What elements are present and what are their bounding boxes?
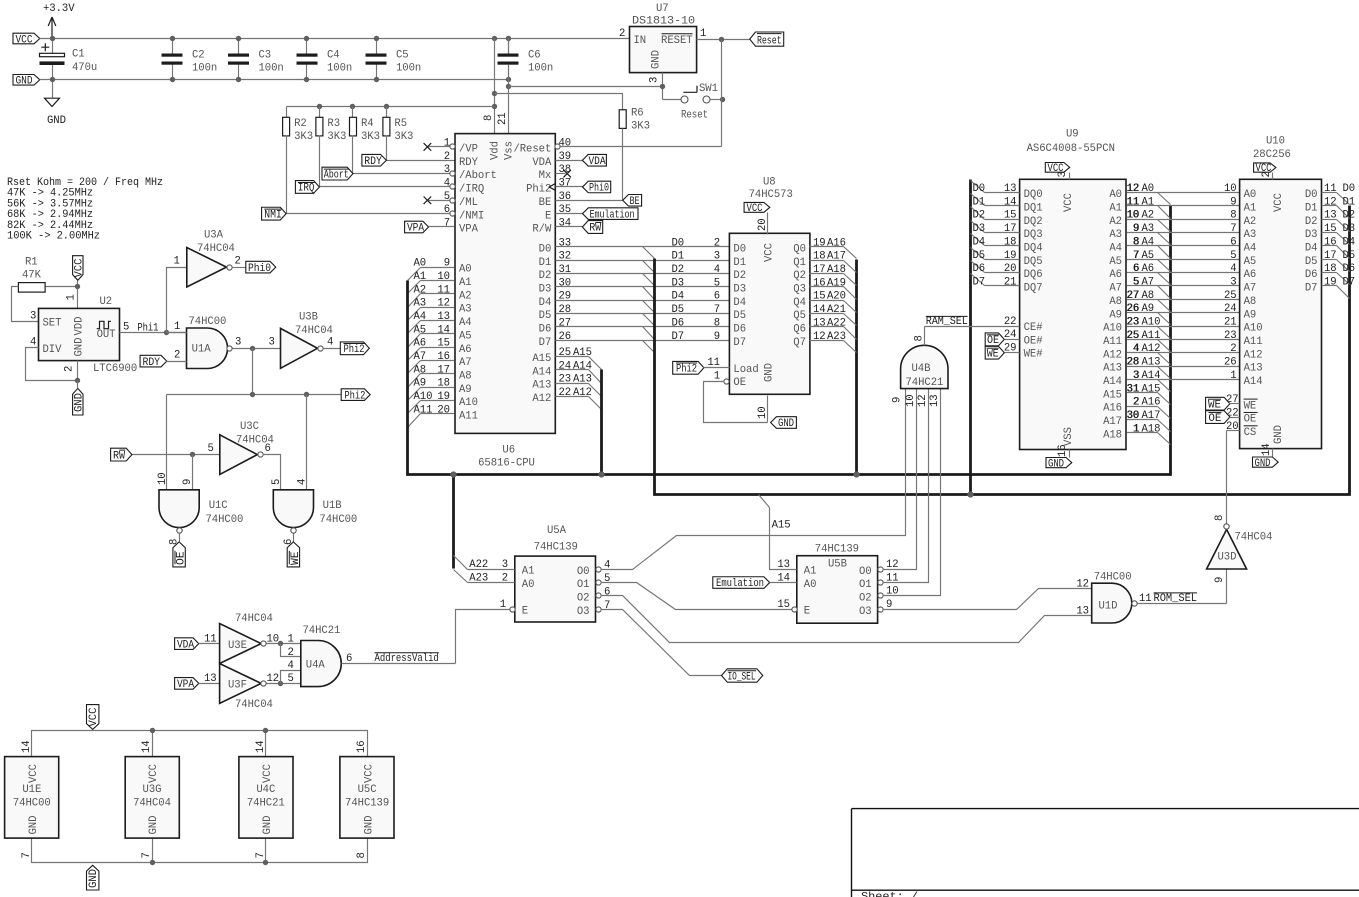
svg-text:1: 1 — [714, 371, 720, 383]
svg-text:74HC04: 74HC04 — [235, 613, 273, 625]
svg-text:GND: GND — [74, 393, 86, 412]
svg-text:6: 6 — [444, 204, 450, 216]
svg-text:Q1: Q1 — [793, 257, 806, 269]
global label Emulation (pin 35) — [556, 208, 639, 221]
svg-text:2: 2 — [444, 151, 450, 163]
svg-text:GND: GND — [88, 869, 100, 888]
svg-text:VCC: VCC — [88, 708, 100, 727]
svg-text:VPA: VPA — [459, 224, 479, 236]
svg-text:12: 12 — [267, 673, 280, 685]
wire VCC top rail — [40, 38, 630, 40]
svg-text:A16: A16 — [1103, 403, 1122, 415]
svg-text:A1: A1 — [804, 565, 817, 577]
svg-text:100n: 100n — [259, 63, 284, 75]
svg-text:A11: A11 — [1244, 336, 1263, 348]
svg-text:U4A: U4A — [306, 660, 326, 672]
svg-text:O0: O0 — [577, 566, 590, 578]
svg-text:20: 20 — [1226, 421, 1239, 433]
svg-text:74HC00: 74HC00 — [13, 798, 51, 810]
svg-text:D0: D0 — [539, 243, 552, 255]
svg-text:/VP: /VP — [459, 144, 478, 156]
svg-text:C6: C6 — [528, 50, 541, 62]
svg-text:22: 22 — [559, 387, 572, 399]
svg-text:6: 6 — [265, 443, 271, 455]
svg-text:D6: D6 — [973, 263, 986, 275]
svg-text:14: 14 — [1004, 196, 1017, 208]
resistor R6 3K3 — [495, 94, 650, 201]
svg-text:18: 18 — [1324, 263, 1337, 275]
svg-text:A4: A4 — [1244, 243, 1257, 255]
svg-text:Sheet: /: Sheet: / — [861, 892, 918, 897]
svg-text:A0: A0 — [804, 579, 817, 591]
svg-text:A2: A2 — [1244, 216, 1257, 228]
svg-text:74HC573: 74HC573 — [749, 189, 793, 201]
svg-text:74HC04: 74HC04 — [133, 798, 171, 810]
svg-text:3: 3 — [444, 164, 450, 176]
svg-text:RDY: RDY — [364, 156, 382, 168]
svg-text:6: 6 — [1230, 236, 1236, 248]
svg-text:RAM_SEL: RAM_SEL — [926, 316, 968, 328]
global label WE (U10) — [1206, 397, 1240, 411]
svg-text:A12: A12 — [573, 387, 592, 399]
svg-text:Phi2: Phi2 — [526, 184, 551, 196]
svg-text:OE: OE — [733, 377, 746, 389]
svg-text:GND: GND — [74, 338, 86, 357]
svg-text:/NMI: /NMI — [459, 210, 484, 222]
svg-text:U1E: U1E — [22, 784, 41, 796]
svg-text:A0: A0 — [1109, 189, 1122, 201]
IC U6 65816-CPU — [437, 112, 571, 469]
svg-text:17: 17 — [437, 364, 450, 376]
svg-text:A4: A4 — [414, 311, 427, 323]
svg-text:10: 10 — [905, 394, 917, 407]
gate U4A 74HC21 — [301, 625, 341, 687]
wire VPA to pin 7 — [429, 226, 455, 228]
svg-text:3K3: 3K3 — [294, 131, 313, 143]
svg-text:IN: IN — [634, 35, 647, 47]
global label RW (pin 34) — [556, 221, 603, 235]
svg-text:U10: U10 — [1266, 136, 1285, 148]
svg-text:A8: A8 — [414, 364, 427, 376]
svg-text:A22: A22 — [469, 559, 488, 571]
svg-text:E: E — [522, 605, 528, 617]
svg-text:A15: A15 — [1142, 383, 1161, 395]
svg-text:D2: D2 — [733, 270, 746, 282]
wire ROM_SEL / net label ROM_SEL — [1138, 593, 1227, 605]
resistor R3 3K3 — [316, 107, 346, 187]
svg-text:27: 27 — [559, 317, 572, 329]
svg-text:C2: C2 — [192, 50, 205, 62]
svg-text:GND: GND — [1255, 458, 1271, 470]
svg-text:74HC04: 74HC04 — [197, 243, 235, 255]
wire U10 CS down to U3D — [1227, 431, 1240, 525]
svg-text:CE#: CE# — [1024, 322, 1044, 334]
global label Abort — [322, 167, 353, 181]
svg-text:4: 4 — [30, 337, 36, 349]
svg-text:D7: D7 — [733, 337, 746, 349]
svg-text:A2: A2 — [459, 290, 472, 302]
svg-text:8: 8 — [356, 852, 368, 858]
svg-text:U1C: U1C — [209, 500, 228, 512]
global label Reset — [750, 32, 784, 48]
svg-text:A4: A4 — [459, 317, 472, 329]
svg-text:LTC6900: LTC6900 — [93, 363, 137, 375]
svg-text:A18: A18 — [827, 264, 846, 276]
svg-text:VCC: VCC — [363, 764, 375, 783]
svg-text:30: 30 — [1127, 410, 1140, 422]
svg-text:8: 8 — [914, 335, 926, 341]
svg-text:A23: A23 — [827, 331, 846, 343]
svg-text:74HC00: 74HC00 — [189, 316, 227, 328]
svg-text:A3: A3 — [1142, 223, 1155, 235]
svg-text:10: 10 — [437, 271, 450, 283]
wire U1A output to U3B — [233, 337, 281, 352]
svg-text:C1: C1 — [72, 49, 85, 61]
svg-text:VPA: VPA — [407, 223, 425, 235]
global label Phi0 (pin 37) — [556, 181, 611, 194]
svg-text:74HC139: 74HC139 — [534, 542, 578, 554]
svg-text:D6: D6 — [1305, 269, 1318, 281]
svg-text:9: 9 — [182, 479, 194, 485]
svg-text:GND: GND — [1048, 458, 1064, 470]
svg-text:38: 38 — [559, 164, 572, 176]
svg-text:VDA: VDA — [589, 156, 607, 168]
svg-text:24: 24 — [559, 360, 572, 372]
wire Phi2 row — [167, 349, 342, 398]
svg-text:5: 5 — [271, 479, 283, 485]
svg-text:A22: A22 — [827, 317, 846, 329]
svg-text:U3D: U3D — [1218, 552, 1237, 564]
svg-text:3K3: 3K3 — [631, 121, 650, 133]
wire RDY to U1A pin 2 — [167, 361, 187, 363]
wire U3E out to U4A pins 1,2 — [267, 633, 301, 659]
svg-text:BE: BE — [539, 197, 552, 209]
svg-text:A11: A11 — [459, 411, 478, 423]
svg-text:A14: A14 — [1103, 376, 1122, 388]
svg-text:OUT: OUT — [97, 329, 116, 341]
svg-text:1: 1 — [700, 28, 706, 40]
svg-text:15: 15 — [777, 599, 790, 611]
svg-text:26: 26 — [1224, 357, 1237, 369]
svg-text:17: 17 — [1004, 223, 1017, 235]
svg-text:GND: GND — [764, 363, 776, 382]
svg-text:E: E — [545, 210, 551, 222]
svg-text:/ML: /ML — [459, 197, 478, 209]
svg-text:11: 11 — [886, 572, 899, 584]
svg-text:Q3: Q3 — [793, 283, 806, 295]
svg-text:AS6C4008-55PCN: AS6C4008-55PCN — [1027, 143, 1115, 155]
svg-text:A5: A5 — [414, 324, 427, 336]
svg-text:DQ4: DQ4 — [1024, 243, 1043, 255]
svg-text:O2: O2 — [859, 593, 872, 605]
svg-text:A1: A1 — [1142, 196, 1155, 208]
svg-text:Phi0: Phi0 — [589, 183, 609, 195]
svg-text:/IRQ: /IRQ — [459, 184, 484, 196]
global label IRQ — [295, 181, 319, 195]
wire Vss line to CPU pin 21 — [506, 39, 511, 134]
svg-text:D7: D7 — [672, 331, 685, 343]
svg-text:28: 28 — [559, 304, 572, 316]
svg-text:GND: GND — [778, 418, 794, 430]
wire Phi1 to U1A pin 1 — [167, 332, 187, 334]
svg-text:BE: BE — [630, 196, 640, 208]
svg-text:8: 8 — [1133, 236, 1139, 248]
global label VDA (U3E) — [175, 638, 199, 652]
svg-text:8: 8 — [1214, 515, 1226, 521]
svg-text:Phi2: Phi2 — [344, 344, 365, 356]
svg-text:DS1813-10: DS1813-10 — [632, 15, 695, 27]
wire U5A O3 to IO_SEL — [601, 610, 722, 676]
resistor R1 47K — [12, 257, 78, 322]
bus branch A22-A23 (U5A) — [450, 471, 456, 568]
svg-text:23: 23 — [1224, 330, 1237, 342]
svg-text:U6: U6 — [502, 445, 515, 457]
svg-text:AddressValid: AddressValid — [375, 653, 439, 665]
svg-text:47K: 47K — [22, 270, 42, 282]
svg-text:20: 20 — [437, 404, 450, 416]
svg-text:D3: D3 — [1305, 229, 1318, 241]
capacitor C5 100n — [366, 39, 422, 80]
svg-text:A12: A12 — [1103, 349, 1122, 361]
svg-text:Abort: Abort — [324, 169, 349, 181]
svg-text:A10: A10 — [459, 397, 478, 409]
svg-text:10: 10 — [267, 633, 280, 645]
wire U3B output — [323, 337, 341, 349]
svg-text:3: 3 — [1133, 370, 1139, 382]
svg-text:34: 34 — [559, 218, 572, 230]
svg-text:O0: O0 — [859, 566, 872, 578]
svg-text:RESET: RESET — [661, 35, 693, 47]
wire AddressValid to U5A E — [456, 610, 510, 664]
svg-text:4: 4 — [1133, 343, 1139, 355]
svg-text:VCC: VCC — [16, 34, 33, 46]
svg-text:A7: A7 — [1244, 283, 1257, 295]
svg-text:D2: D2 — [1305, 216, 1318, 228]
svg-text:7: 7 — [714, 304, 720, 316]
svg-text:D6: D6 — [539, 324, 552, 336]
svg-text:D0: D0 — [973, 183, 986, 195]
svg-text:A6: A6 — [1109, 269, 1122, 281]
svg-text:A3: A3 — [414, 298, 427, 310]
svg-text:U7: U7 — [656, 3, 669, 15]
pin stubs with no-connect X (pins 1,5,38) — [424, 143, 571, 204]
svg-text:OE#: OE# — [1024, 335, 1044, 347]
svg-text:13: 13 — [813, 317, 826, 329]
svg-text:A9: A9 — [1244, 309, 1257, 321]
svg-text:VSS: VSS — [1063, 427, 1075, 446]
svg-text:12: 12 — [917, 394, 929, 407]
svg-text:5: 5 — [1230, 250, 1236, 262]
svg-text:C5: C5 — [396, 50, 409, 62]
svg-text:21: 21 — [497, 112, 509, 125]
svg-text:A16: A16 — [1142, 397, 1161, 409]
global label /Phi2 (U8 Load) — [673, 361, 730, 375]
svg-text:D0: D0 — [1343, 183, 1356, 195]
svg-text:U1D: U1D — [1099, 601, 1118, 613]
svg-text:R5: R5 — [394, 118, 407, 130]
svg-text:A7: A7 — [459, 357, 472, 369]
svg-text:A18: A18 — [1142, 423, 1161, 435]
svg-text:14: 14 — [141, 740, 153, 753]
svg-text:30: 30 — [559, 277, 572, 289]
bus D0-D7 (data) — [655, 206, 1350, 495]
svg-text:Phi2: Phi2 — [676, 364, 697, 376]
svg-text:6: 6 — [604, 586, 610, 598]
svg-text:A12: A12 — [1142, 343, 1161, 355]
svg-text:A4: A4 — [1109, 243, 1122, 255]
svg-text:14: 14 — [21, 740, 33, 753]
svg-text:A5: A5 — [1142, 250, 1155, 262]
wire Emulation to U5B A0 — [770, 582, 797, 584]
wire U5A O0 to U4B pin 9 — [601, 389, 906, 570]
svg-text:4: 4 — [714, 264, 720, 276]
svg-text:Mx: Mx — [539, 170, 552, 182]
capacitor C1 470u — [40, 39, 98, 80]
svg-text:Phi0: Phi0 — [248, 263, 271, 275]
svg-text:R6: R6 — [631, 108, 644, 120]
IC U5A 74HC139 — [500, 525, 611, 622]
svg-text:A0: A0 — [1142, 183, 1155, 195]
svg-text:1: 1 — [174, 321, 180, 333]
wire AddressValid / net label AddressValid — [342, 653, 456, 665]
svg-text:74HC04: 74HC04 — [1235, 532, 1273, 544]
svg-text:U3C: U3C — [240, 421, 259, 433]
svg-text:9: 9 — [714, 331, 720, 343]
svg-text:Load: Load — [733, 364, 758, 376]
svg-text:5: 5 — [714, 277, 720, 289]
svg-text:D1: D1 — [539, 257, 552, 269]
inverter U3B 74HC04 — [281, 312, 333, 369]
wire Reset net vertical to CPU pin 40 — [561, 40, 722, 147]
svg-text:WE: WE — [987, 348, 999, 360]
svg-text:5: 5 — [288, 673, 294, 685]
capacitor C4 100n — [297, 39, 353, 80]
power flag VCC (U8) — [744, 202, 770, 234]
svg-text:Reset: Reset — [757, 36, 782, 48]
wires CPU A15-A12 with bus entries — [556, 347, 602, 410]
svg-text:25: 25 — [1127, 330, 1140, 342]
svg-text:A19: A19 — [827, 277, 846, 289]
svg-text:37: 37 — [559, 177, 572, 189]
svg-text:A13: A13 — [1103, 363, 1122, 375]
svg-text:D1: D1 — [672, 251, 685, 263]
svg-text:16: 16 — [1324, 236, 1337, 248]
wire U5B O1 to U4B pin 12 — [883, 389, 929, 585]
svg-text:7: 7 — [1133, 250, 1139, 262]
svg-text:OE: OE — [1244, 414, 1257, 426]
svg-text:65816-CPU: 65816-CPU — [478, 457, 535, 469]
svg-text:20: 20 — [1004, 263, 1017, 275]
global label VPA (U3F) — [175, 678, 199, 692]
resistor R4 3K3 — [350, 107, 380, 174]
svg-text:2: 2 — [619, 28, 625, 40]
svg-text:6: 6 — [714, 291, 720, 303]
IC U3G spare 74HC04 — [125, 740, 179, 858]
svg-text:VPA: VPA — [177, 679, 195, 691]
svg-text:GND: GND — [148, 816, 160, 835]
svg-text:4: 4 — [288, 660, 294, 672]
capacitor C3 100n — [228, 39, 284, 80]
global label RDY (U1A) — [140, 355, 167, 369]
svg-text:7: 7 — [255, 852, 267, 858]
svg-text:A1: A1 — [414, 271, 427, 283]
svg-text:74HC21: 74HC21 — [906, 377, 944, 389]
svg-text:74HC00: 74HC00 — [206, 514, 244, 526]
wire U1B output stub — [283, 534, 295, 546]
svg-text:Q0: Q0 — [793, 243, 806, 255]
svg-text:R3: R3 — [327, 118, 340, 130]
svg-text:7: 7 — [444, 218, 450, 230]
svg-text:A17: A17 — [1142, 410, 1161, 422]
svg-text:D3: D3 — [539, 283, 552, 295]
svg-text:DQ3: DQ3 — [1024, 229, 1043, 241]
svg-text:74HC21: 74HC21 — [247, 798, 285, 810]
svg-text:D0: D0 — [1305, 189, 1318, 201]
svg-text:3: 3 — [269, 337, 275, 349]
power flag GND (U8) — [771, 417, 797, 431]
svg-text:2: 2 — [1133, 397, 1139, 409]
svg-text:A0: A0 — [522, 579, 535, 591]
svg-text:A13: A13 — [532, 380, 551, 392]
svg-text:1: 1 — [1133, 423, 1139, 435]
svg-text:16: 16 — [1057, 444, 1069, 457]
svg-text:74HC04: 74HC04 — [295, 325, 333, 337]
svg-text:E: E — [804, 605, 810, 617]
svg-text:A8: A8 — [1142, 290, 1155, 302]
svg-text:Q6: Q6 — [793, 324, 806, 336]
svg-text:6: 6 — [346, 653, 352, 665]
svg-text:A17: A17 — [1103, 416, 1122, 428]
svg-text:IRQ: IRQ — [298, 183, 315, 195]
svg-text:U3E: U3E — [228, 640, 247, 652]
power flag GND (U10) — [1253, 457, 1279, 470]
svg-text:74HC139: 74HC139 — [815, 544, 859, 556]
wire Phi1 to U3A input — [167, 255, 187, 332]
svg-text:Phi2: Phi2 — [344, 390, 365, 402]
svg-text:OE: OE — [987, 335, 999, 347]
svg-text:A9: A9 — [414, 378, 427, 390]
svg-text:OE: OE — [176, 552, 188, 566]
svg-text:12: 12 — [886, 559, 899, 571]
svg-text:VCC: VCC — [1063, 193, 1075, 212]
svg-text:A9: A9 — [459, 384, 472, 396]
global label VDA (pin 39) — [556, 154, 607, 167]
svg-text:A16: A16 — [827, 237, 846, 249]
svg-text:A3: A3 — [1244, 229, 1257, 241]
svg-text:D1: D1 — [1343, 196, 1356, 208]
svg-text:DQ6: DQ6 — [1024, 269, 1043, 281]
svg-text:8: 8 — [714, 317, 720, 329]
svg-text:U5A: U5A — [547, 525, 567, 537]
svg-text:D6: D6 — [733, 324, 746, 336]
svg-text:7: 7 — [141, 852, 153, 858]
svg-text:VCC: VCC — [1273, 193, 1285, 212]
svg-text:C4: C4 — [327, 50, 340, 62]
svg-text:11: 11 — [1324, 183, 1337, 195]
global label VPA (CPU pin 7) — [405, 221, 429, 235]
svg-text:VDD: VDD — [74, 317, 86, 336]
global label RW — [111, 448, 132, 462]
svg-text:SW1: SW1 — [699, 83, 718, 95]
svg-text:A23: A23 — [469, 572, 488, 584]
svg-text:GND: GND — [363, 816, 375, 835]
svg-text:A0: A0 — [1244, 189, 1257, 201]
power flag VCC (U9) — [1045, 163, 1069, 180]
svg-text:VDA: VDA — [177, 639, 195, 651]
svg-text:D1: D1 — [1305, 202, 1318, 214]
IC U9 AS6C4008-55PCN — [1004, 129, 1139, 458]
svg-text:31: 31 — [559, 264, 572, 276]
